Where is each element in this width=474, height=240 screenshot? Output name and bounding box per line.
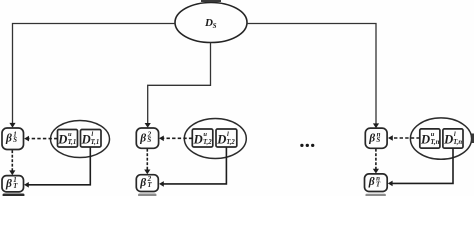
svg-text:β: β	[368, 133, 375, 145]
arrowhead into beta_S^2 right	[159, 136, 164, 142]
box beta_S^1	[2, 128, 24, 150]
ellipsis dots between groups	[300, 144, 314, 147]
arrow into beta_S2 top	[145, 123, 151, 128]
svg-text:D: D	[193, 132, 203, 146]
svg-text:β: β	[139, 177, 146, 189]
ellipse group n	[410, 118, 471, 159]
svg-text:u: u	[68, 131, 72, 138]
arrow into beta_S1 top	[9, 123, 15, 128]
label beta_S^2	[139, 130, 151, 144]
box beta_T^1	[2, 176, 24, 192]
svg-text:l: l	[227, 131, 229, 138]
svg-text:T,1: T,1	[91, 139, 100, 146]
box D_{T,n}^u	[420, 129, 440, 148]
dashed wire beta_S^1 down to beta_T^1	[11, 150, 13, 171]
svg-text:T,n: T,n	[430, 139, 439, 146]
label beta_S^1	[5, 130, 17, 144]
arrowhead into beta_S^n right	[388, 135, 393, 141]
label D_{T,n}^l	[443, 131, 462, 146]
arrowhead into beta_T^2 top	[144, 170, 150, 175]
label D_S	[204, 17, 217, 30]
clipped grey bar below beta_T^2	[138, 194, 157, 197]
clipped mark above D_S ellipse	[201, 0, 221, 2]
label D_{T,2}^l	[216, 131, 235, 146]
label beta_T^n	[368, 175, 381, 189]
box D_{T,2}^u	[192, 129, 213, 147]
svg-text:T,n: T,n	[453, 139, 462, 146]
arrowhead into beta_S^1 right	[24, 136, 29, 142]
box beta_T^2	[136, 175, 158, 192]
wire: D_S left to column 1	[13, 24, 176, 124]
dashed wire D^u_{T,n} to beta_S^n	[392, 137, 419, 139]
svg-text:S: S	[13, 136, 17, 144]
svg-text:β: β	[5, 133, 12, 145]
box D_{T,n}^l	[443, 129, 463, 148]
svg-text:D: D	[443, 132, 453, 146]
label D_{T,1}^u	[57, 131, 76, 146]
svg-text:u: u	[431, 131, 435, 138]
svg-text:T: T	[376, 180, 381, 188]
box D_{T,2}^l	[216, 129, 237, 147]
svg-text:S: S	[213, 22, 217, 30]
svg-text:D: D	[216, 132, 226, 146]
box beta_S^n	[365, 128, 387, 148]
arrow into beta_Sn top	[373, 123, 379, 128]
svg-text:D: D	[420, 132, 430, 146]
clipped dark mark at right image edge	[472, 134, 474, 144]
svg-text:l: l	[91, 131, 93, 138]
clipped grey bar below beta_T^n	[365, 194, 386, 197]
svg-text:T,1: T,1	[68, 139, 77, 146]
label D_{T,2}^u	[193, 131, 213, 146]
dashed wire D^u_{T,1} to beta_S^1	[29, 138, 58, 140]
svg-text:u: u	[203, 131, 207, 138]
clipped dark bar below beta_T^1	[3, 194, 25, 197]
svg-text:D: D	[81, 132, 91, 146]
box D_{T,1}^u	[58, 130, 78, 148]
wire D_{T,2}^l down and left to beta_T^2	[163, 148, 226, 184]
dashed wire beta_S^n down to beta_T^n	[375, 149, 377, 170]
ellipse group 1 (target data)	[51, 121, 110, 158]
label D_{T,1}^l	[81, 131, 100, 146]
box beta_T^n	[365, 174, 388, 192]
arrowhead into beta_T^1 top	[9, 170, 15, 175]
label beta_S^n	[368, 130, 380, 144]
svg-text:T: T	[147, 181, 152, 189]
label beta_T^1	[5, 176, 18, 190]
ellipse group 2	[184, 119, 246, 159]
svg-text:T: T	[13, 182, 18, 190]
label beta_T^2	[139, 175, 152, 189]
node D_S (source dataset ellipse)	[175, 3, 247, 43]
wire: D_S bottom to column 2	[148, 43, 211, 124]
svg-text:S: S	[147, 136, 151, 144]
svg-text:T,2: T,2	[203, 139, 212, 146]
label D_{T,n}^u	[420, 131, 440, 146]
dashed wire beta_S^2 down to beta_T^2	[146, 149, 148, 170]
arrowhead into beta_T^n top	[373, 169, 379, 174]
arrowhead into beta_T^1 right	[24, 182, 29, 188]
box D_{T,1}^l	[81, 130, 102, 148]
wire: D_S right to column n	[247, 24, 377, 125]
svg-text:D: D	[57, 132, 67, 146]
wire D_{T,1}^l down and left to beta_T^1	[28, 148, 90, 185]
svg-text:β: β	[5, 178, 12, 190]
svg-text:β: β	[139, 133, 146, 145]
arrowhead into beta_T^n right	[388, 181, 393, 187]
arrowhead into beta_T^2 right	[159, 181, 164, 187]
box beta_S^2	[136, 128, 158, 148]
svg-text:S: S	[376, 136, 380, 144]
svg-text:β: β	[368, 176, 375, 188]
wire D_{T,n}^l down and left to beta_T^n	[392, 149, 453, 184]
svg-text:l: l	[454, 131, 456, 138]
dashed wire D^u_{T,2} to beta_S^2	[163, 137, 192, 139]
svg-text:T,2: T,2	[226, 139, 235, 146]
